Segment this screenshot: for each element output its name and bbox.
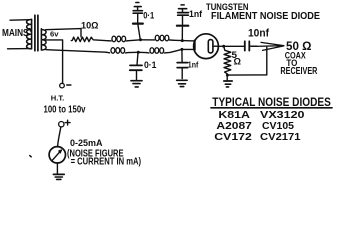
svg-text:TYPICAL NOISE DIODES: TYPICAL NOISE DIODES xyxy=(212,95,330,109)
svg-text:0·1: 0·1 xyxy=(144,60,157,70)
svg-text:CV172: CV172 xyxy=(214,131,252,143)
svg-text:100 to 150v: 100 to 150v xyxy=(44,104,86,115)
svg-text:H.T.: H.T. xyxy=(51,96,65,103)
svg-text:10Ω: 10Ω xyxy=(81,21,99,32)
svg-text:MAINS: MAINS xyxy=(2,28,29,39)
svg-text:10nf: 10nf xyxy=(248,28,269,40)
svg-text:Ω: Ω xyxy=(234,56,242,66)
svg-text:0-25mA: 0-25mA xyxy=(70,138,103,149)
svg-text:1nf: 1nf xyxy=(188,59,199,69)
svg-text:6v: 6v xyxy=(50,30,59,39)
svg-text:0·1: 0·1 xyxy=(143,10,154,20)
svg-text:RECEIVER: RECEIVER xyxy=(280,65,317,77)
svg-text:= CURRENT IN mA): = CURRENT IN mA) xyxy=(71,157,142,168)
svg-text:CV2171: CV2171 xyxy=(260,131,301,143)
svg-text:1nf: 1nf xyxy=(189,9,203,19)
svg-text:FILAMENT NOISE DIODE: FILAMENT NOISE DIODE xyxy=(211,11,320,22)
